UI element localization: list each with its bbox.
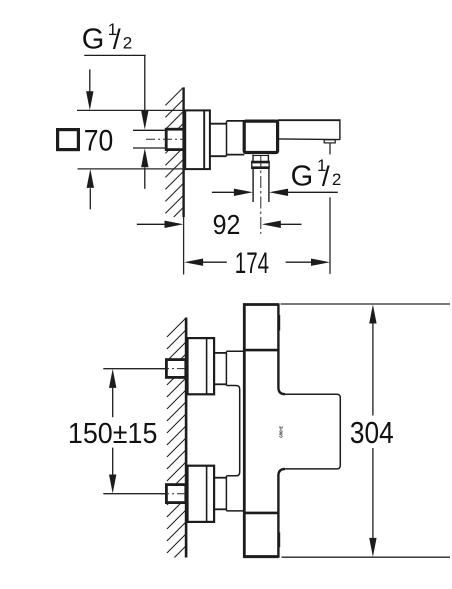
svg-text:150±15: 150±15	[68, 418, 157, 450]
lower union center line	[161, 493, 187, 495]
outlet adapter	[252, 155, 254, 162]
svg-text:GROHE: GROHE	[278, 426, 283, 437]
upper union center line	[161, 368, 187, 370]
supply elbow between inlets	[226, 386, 239, 476]
dim 70 bottom extension line	[78, 168, 185, 170]
svg-text:G: G	[82, 23, 105, 55]
wall line (front view)	[185, 318, 188, 558]
leader under G 1/2 (top)	[84, 54, 145, 56]
dim 92 line left part	[137, 223, 165, 225]
svg-text:G: G	[291, 160, 314, 192]
lower escutcheon (front)	[188, 466, 215, 522]
svg-text:2: 2	[332, 170, 341, 189]
wall hatching (side view)	[165, 87, 183, 237]
spout aerator	[324, 140, 335, 143]
outlet pipe	[252, 168, 254, 202]
lower handle divider	[244, 512, 279, 515]
upper escutcheon face line	[206, 338, 208, 394]
upper cylinder 2 top	[226, 350, 243, 352]
body column top edge	[244, 303, 279, 306]
outlet nut	[252, 161, 269, 168]
dim 304 line upper	[369, 305, 376, 324]
wall line (side view)	[182, 87, 184, 217]
leader G 1/2 lower with arrows	[212, 191, 234, 193]
thermostat cube body	[244, 121, 277, 152]
svg-text:/: /	[322, 160, 330, 191]
wall hatching (front view)	[167, 317, 187, 577]
upper union nipple	[166, 360, 185, 378]
dim 70 top arrow	[89, 69, 91, 91]
upper cylinder	[214, 352, 226, 354]
lower handle grip mark	[278, 533, 280, 547]
svg-text:/: /	[113, 23, 121, 54]
escutcheon face line	[203, 111, 205, 170]
union nut cylinder 2	[227, 120, 245, 122]
cylinder divider	[226, 121, 228, 156]
dim 150 line lower	[112, 448, 114, 475]
spout block outline	[285, 394, 340, 469]
union center line	[146, 138, 185, 140]
aerator extension line	[329, 143, 331, 155]
body column right edge lower	[278, 469, 285, 558]
dim 150 lower extension line	[103, 493, 167, 495]
svg-text:70: 70	[84, 124, 114, 157]
svg-text:174: 174	[235, 247, 269, 280]
svg-text:2: 2	[123, 33, 132, 52]
union nut cylinder 1	[210, 123, 227, 125]
spout end edge	[339, 119, 341, 139]
dim 150 line upper	[109, 369, 116, 388]
dim 174 line	[184, 259, 203, 266]
spout top edge	[278, 119, 341, 121]
lower cylinder 2 bottom	[226, 510, 243, 512]
spout bottom edge	[278, 138, 340, 141]
wall union nipple (side view)	[166, 129, 184, 149]
upper escutcheon (front)	[188, 338, 215, 394]
lower union nipple	[166, 485, 185, 503]
svg-text:304: 304	[350, 415, 394, 450]
supply pipe stub bottom line	[133, 147, 167, 149]
supply pipe stub top line	[133, 129, 167, 131]
dim 70 bottom arrow	[87, 169, 94, 188]
dim 304 line lower	[372, 448, 374, 538]
body column right edge upper	[278, 303, 285, 394]
svg-text:92: 92	[213, 209, 241, 240]
lower escutcheon face line	[206, 466, 208, 522]
escutcheon plate (side view)	[185, 110, 210, 169]
lower cylinder	[214, 477, 226, 479]
body column bottom edge	[244, 555, 279, 558]
dim 304 bottom extension line	[282, 556, 451, 558]
upper handle grip mark	[278, 315, 280, 330]
body column left edge	[243, 303, 246, 558]
dim 70 top extension line	[77, 109, 185, 111]
dim 150 upper extension line	[103, 368, 166, 370]
leader drop to union	[144, 55, 146, 110]
outlet pipe center line	[260, 156, 262, 234]
union thread bottom arrow	[141, 148, 148, 167]
label square 70	[58, 130, 79, 150]
dim 304 top extension line	[281, 303, 451, 305]
dim 92 line right part	[262, 221, 281, 228]
upper handle divider	[244, 349, 279, 352]
